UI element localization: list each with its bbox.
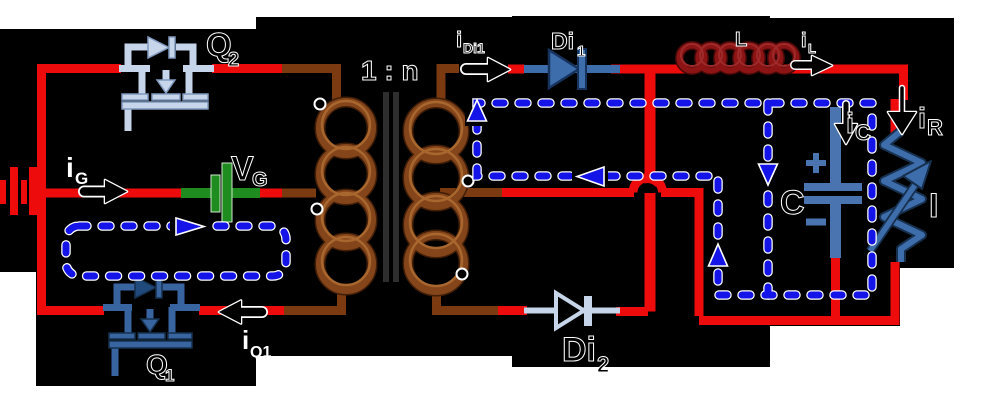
svg-text:2: 2 bbox=[228, 49, 239, 71]
svg-text:R: R bbox=[927, 115, 943, 140]
svg-text:1 : n: 1 : n bbox=[361, 55, 419, 86]
svg-text:Di: Di bbox=[551, 28, 574, 54]
svg-text:2: 2 bbox=[597, 352, 609, 377]
svg-text:C: C bbox=[855, 120, 871, 145]
svg-text:i: i bbox=[456, 27, 462, 52]
svg-text:I: I bbox=[929, 187, 938, 225]
svg-text:L: L bbox=[808, 41, 816, 56]
svg-text:i: i bbox=[66, 152, 74, 183]
svg-text:C: C bbox=[780, 184, 805, 222]
svg-text:i: i bbox=[846, 108, 854, 140]
svg-text:G: G bbox=[75, 169, 88, 188]
svg-text:L: L bbox=[735, 29, 747, 51]
svg-text:i: i bbox=[242, 325, 249, 355]
svg-text:Q1: Q1 bbox=[250, 344, 271, 361]
svg-text:i: i bbox=[918, 103, 926, 135]
svg-text:G: G bbox=[252, 169, 268, 191]
svg-text:i: i bbox=[801, 30, 807, 52]
svg-text:1: 1 bbox=[577, 43, 585, 60]
svg-text:Di1: Di1 bbox=[463, 40, 485, 56]
svg-text:Di: Di bbox=[562, 331, 596, 369]
svg-text:V: V bbox=[231, 150, 254, 188]
svg-text:1: 1 bbox=[165, 366, 174, 385]
